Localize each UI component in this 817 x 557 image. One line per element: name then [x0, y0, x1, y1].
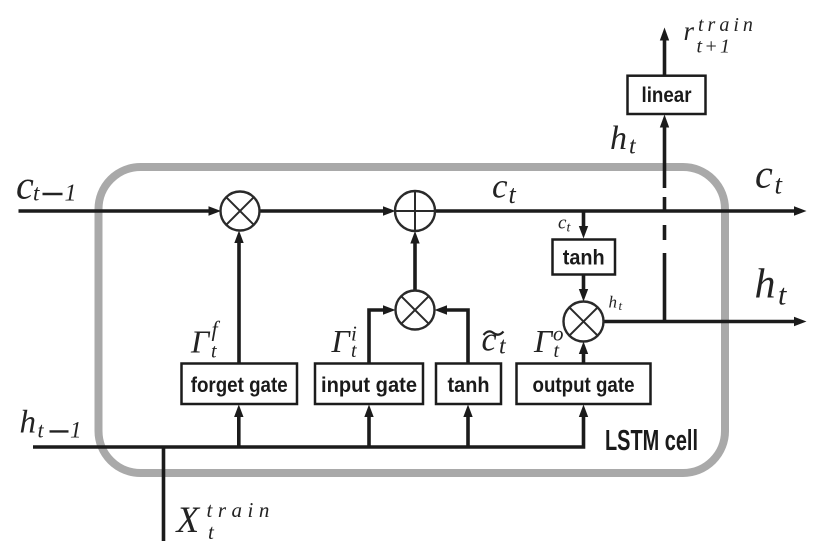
svg-text:1: 1: [70, 418, 82, 443]
svg-text:c: c: [755, 152, 773, 197]
svg-text:c: c: [492, 167, 508, 206]
svg-text:train: train: [698, 14, 757, 36]
svg-text:t: t: [211, 341, 217, 363]
svg-text:1: 1: [65, 181, 77, 207]
wire linear to r output: [660, 28, 669, 76]
multiply node M3: [564, 302, 604, 342]
wire branch to forget gate: [234, 405, 243, 448]
label Gamma_t^i: [331, 322, 358, 363]
wire input gate to M2 (elbow): [369, 305, 396, 363]
svg-text:linear: linear: [642, 84, 692, 107]
wire c_t branch down to tanh (top): [579, 211, 588, 239]
svg-text:Γ: Γ: [533, 323, 554, 359]
wire branch to tanh (bottom): [463, 405, 472, 448]
label c_{t-1}: [16, 163, 77, 208]
label Gamma_t^o: [533, 322, 564, 363]
label c_t (inside, above wire): [492, 167, 517, 210]
label h_t (small, at M3): [609, 293, 623, 314]
svg-text:X: X: [175, 500, 201, 541]
svg-text:t: t: [554, 340, 560, 362]
label r_{t+1}^train: [684, 14, 757, 58]
label Gamma_t^f: [190, 317, 221, 363]
svg-text:t+1: t+1: [697, 36, 733, 58]
svg-text:t: t: [38, 418, 45, 443]
wire h_t up to linear (solid lower part): [663, 253, 667, 322]
svg-text:input gate: input gate: [321, 374, 417, 397]
wire X_t^train input: [162, 447, 166, 541]
svg-text:t: t: [509, 180, 517, 209]
svg-text:Γ: Γ: [331, 323, 352, 359]
wire h_t from M3 to right output: [603, 317, 807, 326]
wire c_t from P1 to right output: [435, 206, 807, 215]
svg-text:t: t: [33, 181, 40, 206]
multiply node M2: [396, 291, 435, 330]
label c_t (small, above tanh top): [558, 213, 572, 236]
LSTM cell boundary (gray rounded rectangle): [99, 167, 726, 473]
svg-text:output gate: output gate: [533, 374, 635, 397]
wire branch to input gate: [364, 405, 373, 448]
svg-text:tanh: tanh: [448, 374, 490, 397]
output gate box: [517, 364, 651, 405]
wire M2 to P1: [410, 231, 419, 291]
wire output gate to M3: [579, 342, 588, 364]
svg-text:c: c: [482, 322, 497, 359]
label h_t (right output): [755, 262, 788, 312]
label X_t^train: [175, 498, 275, 544]
svg-text:LSTM cell: LSTM cell: [605, 425, 698, 457]
linear box: [628, 76, 706, 114]
label h_{t-1}: [20, 405, 82, 443]
svg-text:h: h: [609, 293, 618, 312]
plus node P1: [395, 191, 435, 231]
svg-text:h: h: [20, 405, 37, 441]
svg-text:t: t: [619, 298, 623, 313]
svg-text:train: train: [207, 498, 275, 522]
svg-text:r: r: [684, 16, 695, 46]
wire forget gate to M1: [234, 231, 243, 364]
multiply node M1: [221, 192, 260, 231]
svg-text:forget gate: forget gate: [191, 374, 288, 397]
wire h_t to linear (solid upper part with arrow): [660, 115, 669, 189]
svg-text:c: c: [16, 163, 34, 208]
wire h_{t-1} bottom line into output gate: [33, 405, 588, 448]
tanh box (top): [553, 240, 616, 275]
svg-text:Γ: Γ: [190, 324, 211, 360]
label c-tilde_t: [482, 322, 508, 360]
wire tanh (bottom) to M2 (elbow): [435, 305, 469, 363]
label h_t (above cell, near linear): [610, 120, 637, 160]
svg-text:t: t: [778, 279, 787, 312]
tanh box (bottom): [436, 364, 501, 405]
label c_t (right output): [755, 152, 784, 200]
input gate box: [315, 364, 423, 405]
forget gate box: [182, 364, 298, 405]
svg-text:h: h: [755, 262, 776, 308]
svg-text:h: h: [610, 120, 627, 157]
wire tanh (top) to M3: [579, 275, 588, 302]
svg-text:tanh: tanh: [563, 247, 605, 270]
wire M1 to plus node P1: [260, 206, 396, 215]
wire c_{t-1} input to multiply node M1: [19, 206, 222, 215]
svg-text:t: t: [351, 340, 357, 362]
wire h_t to linear dashed crossing segment: [663, 197, 667, 240]
